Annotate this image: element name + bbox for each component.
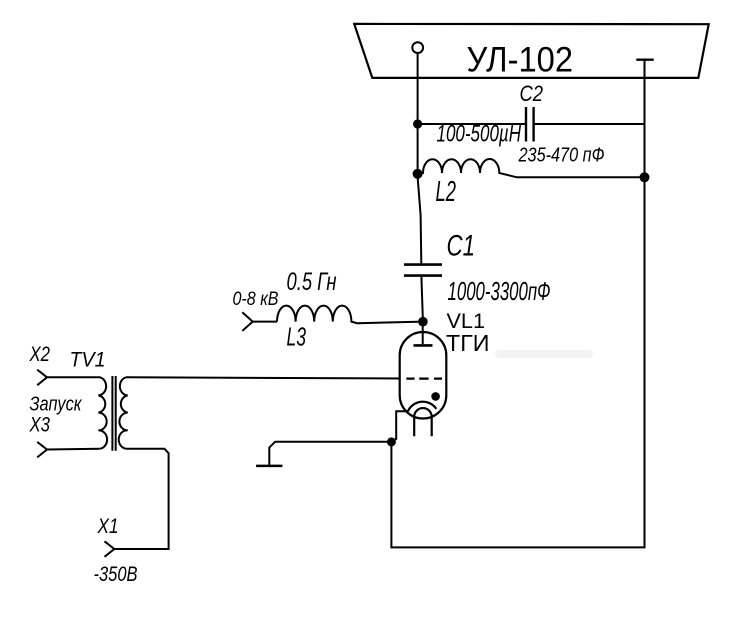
ground xyxy=(256,465,282,468)
capacitor C1 xyxy=(404,265,442,276)
svg-text:0.5 Гн: 0.5 Гн xyxy=(287,268,337,296)
wire L2 junction to C1 xyxy=(418,178,422,264)
svg-text:100-500µH: 100-500µH xyxy=(437,121,522,148)
connector X2 xyxy=(37,370,47,386)
wire anode drop xyxy=(417,53,419,124)
cathode terminal bar xyxy=(636,59,653,61)
svg-text:X3: X3 xyxy=(29,413,51,436)
svg-text:C2: C2 xyxy=(520,81,544,106)
wire secondary bottom xyxy=(114,449,168,549)
gas dot xyxy=(431,392,440,401)
transformer TV1 primary xyxy=(98,377,107,448)
thyratron VL1 envelope xyxy=(400,332,447,419)
thyratron anode plate xyxy=(414,344,433,347)
node thyratron anode junction xyxy=(418,317,428,327)
wire C2 left xyxy=(418,123,525,125)
wire cathode lead xyxy=(392,411,409,442)
inductor L2 xyxy=(418,159,645,177)
thyratron heater xyxy=(414,408,432,436)
svg-text:ТГИ: ТГИ xyxy=(446,330,490,356)
svg-text:Запуск: Запуск xyxy=(30,394,83,416)
thyratron cathode arc xyxy=(408,402,436,412)
wire X3 to primary xyxy=(47,448,100,451)
connector X1 xyxy=(105,541,115,557)
svg-text:X2: X2 xyxy=(29,343,51,366)
wire C2 right xyxy=(535,123,645,125)
svg-text:L3: L3 xyxy=(287,322,307,352)
faint smudge artifact xyxy=(495,350,593,358)
svg-text:L2: L2 xyxy=(436,176,457,208)
anode terminal circle xyxy=(412,42,423,53)
node cathode junction xyxy=(387,437,396,446)
node L2 left junction xyxy=(413,169,423,179)
wire to L3 xyxy=(253,321,277,323)
laser tube UL-102 body xyxy=(354,24,709,78)
svg-text:УЛ-102: УЛ-102 xyxy=(467,41,574,80)
wire X2 to primary xyxy=(47,376,100,378)
svg-text:235-470 пФ: 235-470 пФ xyxy=(518,144,605,166)
thyratron grid (dashed) xyxy=(406,377,442,379)
svg-text:1000-3300пФ: 1000-3300пФ xyxy=(448,276,551,306)
node anode-C2 junction xyxy=(413,119,422,128)
thyratron anode lead xyxy=(422,322,424,344)
wire secondary top to grid xyxy=(126,377,400,378)
svg-text:0-8 кВ: 0-8 кВ xyxy=(233,289,279,310)
connector 0-8 kV xyxy=(242,312,252,331)
wire bottom return loop xyxy=(391,60,644,548)
transformer TV1 secondary xyxy=(119,377,128,448)
transformer core xyxy=(112,376,115,451)
wire C1 to anode node xyxy=(421,277,422,318)
connector X3 xyxy=(37,442,47,458)
capacitor C2 xyxy=(526,107,534,142)
inductor L3 xyxy=(277,306,418,324)
wire between junctions xyxy=(417,124,419,174)
svg-text:X1: X1 xyxy=(97,515,119,538)
svg-text:-350В: -350В xyxy=(94,563,138,586)
wire ground branch xyxy=(269,442,391,466)
svg-text:C1: C1 xyxy=(447,230,476,263)
node L2 right junction xyxy=(640,172,650,182)
svg-text:TV1: TV1 xyxy=(70,349,106,372)
